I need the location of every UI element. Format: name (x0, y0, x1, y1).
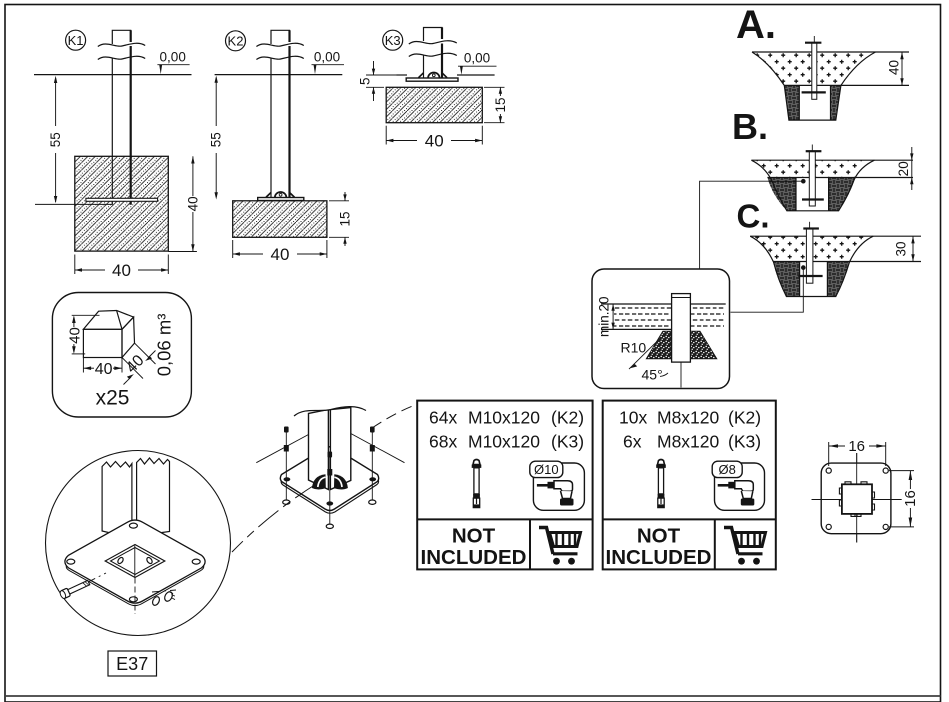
svg-text:40: 40 (186, 196, 201, 211)
plate hole bottom (326, 501, 333, 505)
svg-text:M10x120: M10x120 (468, 408, 540, 428)
leader dot C (801, 265, 806, 270)
svg-text:E37: E37 (116, 654, 148, 674)
socket square with weld ticks (842, 484, 872, 514)
excavation outline A (752, 52, 876, 120)
dimension 30 C (912, 236, 914, 261)
svg-text:16: 16 (902, 490, 919, 507)
dimension 5 left K3 (366, 74, 398, 76)
gusset left (312, 474, 326, 489)
base plate diamond detail (65, 520, 205, 603)
svg-text:40: 40 (95, 361, 113, 378)
45 degree slope line (629, 341, 657, 369)
dimension 15 right K2 (329, 200, 349, 202)
concrete slab K3 (386, 87, 482, 122)
plate outline (821, 463, 891, 534)
ground line K3 (397, 74, 408, 76)
svg-text:(K3): (K3) (551, 432, 584, 452)
pit wall right C (827, 262, 850, 297)
dimension 40 A (901, 52, 903, 85)
bolt hole BL (826, 524, 831, 529)
dimension 40 bottom K1 (74, 255, 76, 275)
pit wall left A (784, 85, 799, 120)
plate hole left (284, 477, 291, 481)
svg-text:16: 16 (848, 438, 865, 455)
anchor dome K3 (428, 72, 440, 78)
svg-text:K1: K1 (68, 33, 84, 48)
label circle K3 (383, 30, 403, 50)
excavation outline C (750, 236, 873, 296)
dimension 20 B (911, 147, 913, 190)
dashed bolt axis (88, 573, 106, 582)
washer lower right (151, 596, 161, 607)
svg-text:40: 40 (886, 60, 901, 75)
svg-text:5: 5 (358, 77, 373, 85)
post detail (672, 294, 691, 363)
centre line horizontal (812, 499, 902, 501)
concrete slab K2 (233, 201, 327, 238)
break wave lines K2 (256, 43, 303, 46)
plate hole top (129, 523, 137, 528)
break wave lines K1 (98, 43, 145, 46)
drill icon (537, 481, 574, 506)
cube dimension 40 diagonal (122, 358, 143, 379)
svg-text:40: 40 (425, 131, 444, 150)
excavation concrete layer A (752, 52, 876, 85)
svg-text:min.20: min.20 (597, 296, 612, 337)
post break wave top (294, 391, 366, 416)
svg-text:20: 20 (896, 161, 911, 176)
subsoil line detail (601, 328, 672, 330)
break wave lines K3 (409, 41, 457, 44)
plate hole right (369, 477, 376, 481)
svg-text:K3: K3 (385, 33, 401, 48)
reference line 55 bottom K1 (35, 203, 112, 205)
svg-text:INCLUDED: INCLUDED (421, 546, 527, 569)
cube dimension 40 left (72, 314, 100, 316)
plate hole bottom (129, 597, 137, 602)
base plate K3 (406, 78, 458, 81)
svg-text:A.: A. (736, 3, 776, 47)
leader line B to detail (700, 181, 804, 269)
svg-text:40: 40 (67, 327, 84, 344)
dimension 55 K1 (55, 78, 57, 126)
post B (809, 151, 815, 206)
post A (812, 43, 817, 100)
svg-text:6x: 6x (623, 432, 642, 452)
svg-text:M8x120: M8x120 (657, 432, 720, 452)
post plank right (137, 458, 170, 536)
svg-text:45°: 45° (642, 367, 663, 383)
gravel mound (646, 331, 717, 359)
svg-text:68x: 68x (429, 432, 457, 452)
ground line K1 (34, 74, 192, 76)
socket diamond centre (105, 545, 165, 578)
post top section K1 (112, 30, 130, 44)
svg-text:(K3): (K3) (728, 432, 761, 452)
svg-text:30: 30 (894, 241, 909, 256)
pit wall right B (829, 178, 856, 211)
gusset marks in socket (117, 556, 125, 564)
diameter label box (712, 461, 742, 477)
svg-text:INCLUDED: INCLUDED (606, 546, 712, 569)
ground line A (752, 51, 909, 53)
pit wall left C (773, 262, 800, 297)
svg-text:R10: R10 (621, 340, 647, 356)
post top section K2 (271, 30, 290, 44)
dimension 40 bottom K2 (232, 240, 234, 258)
svg-text:Ø8: Ø8 (719, 462, 736, 477)
svg-text:55: 55 (48, 132, 63, 147)
post K1 (130, 46, 132, 57)
plate hole right (192, 559, 200, 564)
centre lines over plate (856, 453, 858, 543)
ground line B (751, 159, 913, 161)
svg-text:0,06 m³: 0,06 m³ (154, 314, 175, 377)
svg-text:0,00: 0,00 (160, 50, 186, 65)
ground line K2 (215, 74, 343, 76)
svg-text:15: 15 (338, 211, 353, 226)
post K3 (441, 44, 443, 55)
cart icon (724, 528, 766, 565)
dimension 15 right K3 (484, 86, 505, 88)
dashed leader to circle detail (232, 484, 317, 553)
anchor bolt left (285, 430, 287, 500)
ground line detail (601, 303, 726, 305)
leader line C to detail (731, 268, 804, 313)
svg-text:M10x120: M10x120 (468, 432, 540, 452)
dimension 55 K2 (215, 78, 217, 126)
svg-text:64x: 64x (429, 408, 457, 428)
svg-text:B.: B. (732, 106, 768, 147)
drill rounded box (533, 463, 584, 510)
post C (806, 229, 813, 284)
svg-text:C.: C. (737, 198, 770, 235)
base plate diamond (280, 447, 378, 511)
soil hatch band (614, 305, 724, 331)
gusset right (334, 474, 348, 489)
post top section K3 (424, 28, 443, 42)
svg-text:40: 40 (112, 261, 131, 280)
concrete block K1 (75, 156, 169, 251)
cube top face (83, 311, 133, 330)
anchor bolt icon (472, 460, 482, 508)
post plank left (102, 462, 132, 539)
detail circle (46, 451, 231, 636)
label circle K2 (226, 31, 246, 51)
pit wall left B (767, 178, 796, 211)
svg-text:0,00: 0,00 (464, 50, 490, 65)
dimension 16 top (828, 442, 830, 466)
centre dashed line (134, 578, 136, 615)
plate hole left (67, 559, 75, 564)
svg-text:Ø10: Ø10 (534, 462, 559, 477)
cube right face (122, 317, 135, 357)
ground diagonal left (256, 435, 308, 463)
svg-text:M8x120: M8x120 (657, 408, 720, 428)
post square tube (309, 410, 329, 490)
dimension 40 right K1 (168, 251, 197, 253)
svg-text:x25: x25 (96, 387, 130, 410)
bolt hole BR (883, 524, 888, 529)
concrete cube front face (83, 329, 122, 357)
min.20 dimension (612, 304, 614, 329)
base plate K2 (258, 198, 304, 201)
nut lower right (163, 590, 174, 602)
excavation concrete layer B (751, 160, 874, 177)
svg-text:NOT: NOT (452, 525, 496, 548)
label circle K1 (66, 30, 86, 50)
rounded detail box (592, 269, 730, 389)
ground line C (750, 235, 921, 237)
svg-text:15: 15 (493, 97, 508, 112)
centre line vertical (856, 453, 858, 543)
ground diagonal right (351, 434, 405, 463)
svg-text:(K2): (K2) (551, 408, 584, 428)
svg-text:NOT: NOT (637, 525, 681, 548)
drill icon (718, 481, 755, 506)
title block top line (5, 695, 941, 697)
dimension 40 bottom K3 (385, 126, 387, 145)
cart icon (539, 528, 581, 565)
dashed leader to table (372, 405, 417, 429)
leader dot B (801, 179, 806, 184)
anchor bolt centre (329, 455, 331, 524)
anchor dome K2 (275, 192, 287, 198)
svg-text:K2: K2 (228, 34, 244, 49)
anchor bolt right (371, 430, 373, 500)
subsoil line A (784, 84, 909, 86)
pit wall right A (831, 85, 841, 120)
post centre line below (680, 362, 682, 387)
bolt hole TR (883, 468, 888, 473)
rounded info box (52, 293, 191, 418)
socket seam line (134, 546, 136, 578)
subsoil line B (767, 177, 913, 179)
subsoil line C (773, 261, 921, 263)
dimension 16 right (889, 470, 914, 472)
cube dimension 40 bottom (82, 358, 84, 373)
svg-text:0,00: 0,00 (314, 50, 340, 65)
anchor plate K1 (86, 198, 158, 201)
diameter label box (530, 461, 563, 477)
bolt lower left (59, 579, 90, 600)
svg-text:40: 40 (271, 245, 290, 264)
svg-text:(K2): (K2) (728, 408, 761, 428)
svg-text:55: 55 (209, 132, 224, 147)
excavation concrete layer C (750, 236, 873, 261)
excavation outline B (751, 160, 874, 211)
post K2 (288, 46, 290, 57)
anchor bolt icon (656, 460, 666, 508)
drill rounded box (715, 463, 765, 510)
bolt hole TL (826, 468, 831, 473)
svg-text:10x: 10x (619, 408, 647, 428)
